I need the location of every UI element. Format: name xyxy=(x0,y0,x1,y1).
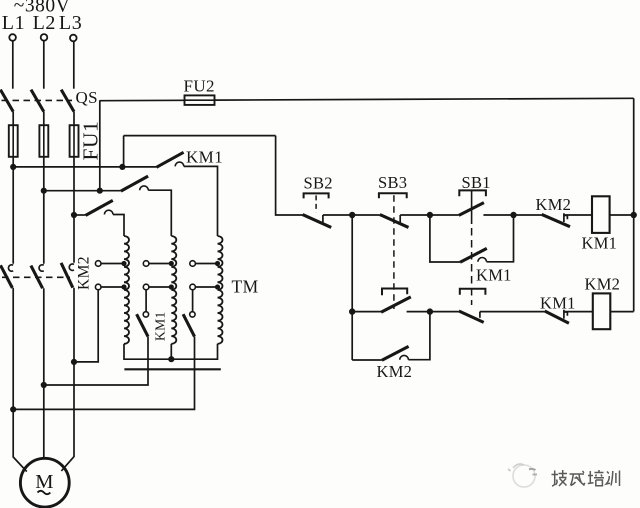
contactor KM1 main contact 3 blade xyxy=(86,200,113,215)
contactor KM1 main contact 3 arc xyxy=(104,210,113,214)
coil KM1 label xyxy=(582,233,618,252)
terminal winding 1 lower tap circle xyxy=(95,284,101,290)
terminal L2 xyxy=(41,34,48,41)
contactor KM1 main contact 2 blade xyxy=(121,176,148,191)
pushbutton SB1 lower tick xyxy=(479,312,481,318)
transformer TM winding 2 xyxy=(171,236,176,344)
wire control left rail xyxy=(276,136,303,215)
fuse FU1 label xyxy=(79,121,103,161)
wire QS pole1 to FU1 xyxy=(12,112,14,126)
wire winding 1 lower tap xyxy=(101,286,124,288)
wire node B to SB1 xyxy=(430,214,459,216)
pushbutton SB1 plunger dashed xyxy=(471,228,473,305)
motor tilde xyxy=(38,491,51,494)
node junction L2 bus xyxy=(41,188,47,194)
contactor KM1 main contact 2 arc xyxy=(140,186,149,190)
node junction contact B L1 xyxy=(10,406,16,412)
wire row2 node to SB1 lower xyxy=(430,311,459,313)
node L1 label xyxy=(2,12,25,34)
wire bus phase L3 horizontal xyxy=(74,214,86,216)
coil KM2 xyxy=(593,293,611,329)
node ~380V supply label xyxy=(14,0,70,17)
svg-text:SB2: SB2 xyxy=(304,174,333,193)
motor M letter xyxy=(35,471,53,493)
contactor KM1 NC row2 label xyxy=(540,294,576,313)
pushbutton SB1 label xyxy=(462,173,491,192)
wire L2 drop to QS xyxy=(43,41,45,89)
terminal winding 2 lower tap circle xyxy=(143,284,149,290)
wire node A to SB3 xyxy=(352,214,380,216)
wire L3 column KM2 to motor xyxy=(61,288,74,471)
node winding 3 lower tap junction xyxy=(215,284,220,289)
node winding 2 upper tap junction xyxy=(169,261,174,266)
wire KM1 contact 2 to winding 2 xyxy=(148,190,171,236)
node A junction xyxy=(349,212,355,218)
svg-text:KM1: KM1 xyxy=(153,311,168,341)
transformer TM winding 3 xyxy=(218,236,223,344)
wire row2 left rail from node A xyxy=(351,215,353,360)
switch QS pole 3 blade xyxy=(61,90,74,112)
contactor KM1 self-hold arc xyxy=(478,258,487,262)
svg-text:QS: QS xyxy=(76,88,99,107)
wire control line 2 xyxy=(124,135,276,137)
contactor KM2 rotated label xyxy=(76,256,93,290)
svg-text:L1: L1 xyxy=(2,12,25,34)
wire L1 column FU1 to KM2 xyxy=(12,157,14,264)
wire control right rail xyxy=(633,98,635,311)
fuse FU1 pole 1 xyxy=(9,125,18,157)
contactor KM1 label xyxy=(186,148,223,167)
node L3 label xyxy=(59,12,82,34)
contactor KM1 NC row2 blade xyxy=(545,311,569,323)
watermark logo xyxy=(508,464,537,487)
contactor KM2 main contact 1 arc xyxy=(8,265,13,271)
wire winding 3 upper tap xyxy=(195,263,217,265)
contactor KM1 main contact 1 arc xyxy=(175,162,184,166)
pushbutton SB2 label xyxy=(304,174,333,193)
svg-text:KM2: KM2 xyxy=(76,256,93,290)
wire SB3 to node B xyxy=(400,214,430,216)
fuse FU1 pole 2 xyxy=(39,125,48,157)
svg-text:KM1: KM1 xyxy=(582,233,618,252)
terminal L3 xyxy=(70,35,77,42)
svg-text:L3: L3 xyxy=(59,12,82,34)
contactor KM2 NC interlock tick xyxy=(564,213,568,222)
terminal winding 2 upper tap circle xyxy=(143,261,149,267)
coil KM1 xyxy=(592,196,610,233)
wire KM2 aux branch right rise xyxy=(408,312,430,360)
wire node C to KM2 interlock xyxy=(514,214,542,216)
contactor KM1 main contact 1 blade xyxy=(156,152,183,167)
contactor KM2 main contact 3 blade xyxy=(61,263,73,288)
node junction row2 left xyxy=(349,308,355,314)
contactor KM2 aux blade xyxy=(382,346,409,360)
node junction tap L3 xyxy=(71,359,77,365)
motor M circle xyxy=(20,458,69,507)
pushbutton SB1 cap xyxy=(459,190,486,196)
wire KM1 contact 3 to winding 1 xyxy=(113,215,124,237)
watermark text 技成培训 xyxy=(552,470,620,486)
pushbutton SB3 lower cap xyxy=(382,289,407,296)
svg-text:L2: L2 xyxy=(33,12,56,34)
wire KM1 contact 1 to winding 3 xyxy=(184,166,218,236)
node winding 1 upper tap junction xyxy=(121,261,126,266)
wire L1 column KM2 to motor xyxy=(13,288,27,472)
contactor KM1 NC row2 tick xyxy=(564,310,568,319)
node junction contact A L2 xyxy=(41,382,47,388)
terminal winding 3 upper tap circle xyxy=(190,261,196,267)
svg-text:SB3: SB3 xyxy=(378,173,407,192)
fuse FU2 label xyxy=(184,77,215,96)
wire QS pole2 to FU1 xyxy=(43,112,45,126)
node junction star bus winding 2 xyxy=(168,356,174,362)
node C junction xyxy=(510,212,516,218)
pushbutton SB3 fixed tick xyxy=(399,215,401,222)
pushbutton SB2 cap xyxy=(304,193,329,198)
contactor KM2 aux arc xyxy=(400,355,409,359)
svg-text:KM2: KM2 xyxy=(585,275,621,294)
pushbutton SB3 label xyxy=(378,173,407,192)
wire SB2 to node A xyxy=(323,214,352,216)
pushbutton SB1 blade xyxy=(459,203,484,216)
contactor KM1 star contact A blade xyxy=(137,314,148,336)
node junction row2 mid xyxy=(427,308,433,314)
contactor KM2 aux label xyxy=(377,362,413,381)
contactor KM2 main contact 3 arc xyxy=(69,264,74,270)
contactor KM2 main contact 2 blade xyxy=(31,266,43,289)
wire L2 column FU1 to KM2 xyxy=(43,157,45,264)
switch QS pole 2 blade xyxy=(31,90,44,112)
contactor KM1 star rotated label xyxy=(153,311,168,341)
contactor KM1 star contact A fixed circle xyxy=(143,312,148,317)
pushbutton SB2 fixed tick xyxy=(322,215,324,222)
wire contact B to L1 column xyxy=(13,337,194,410)
wire bus phase L2 horizontal xyxy=(44,190,121,192)
wire KM2 interlock to coil KM1 xyxy=(564,214,592,216)
wire FU2 feed drop xyxy=(99,100,101,191)
pushbutton SB2 blade xyxy=(303,215,332,228)
svg-text:SB1: SB1 xyxy=(462,173,491,192)
wire self-hold branch right rise xyxy=(487,215,514,262)
svg-text:KM1: KM1 xyxy=(186,148,223,167)
transformer TM winding 1 xyxy=(124,236,129,344)
pushbutton SB1 lower cap xyxy=(460,289,486,295)
contactor KM2 main contact 1 blade xyxy=(1,265,13,288)
svg-text:FU2: FU2 xyxy=(184,77,215,96)
pushbutton SB2 plunger dashed xyxy=(315,195,317,212)
node B junction xyxy=(427,212,433,218)
wire winding bottoms star bus xyxy=(124,344,218,359)
wire winding2 tap to contact A xyxy=(145,290,147,312)
switch QS label xyxy=(76,88,99,107)
svg-text:KM2: KM2 xyxy=(377,362,413,381)
wire winding 2 bottom xyxy=(170,344,172,359)
node winding 2 lower tap junction xyxy=(169,284,174,289)
contactor KM1 self-hold label xyxy=(476,266,512,285)
wire winding3 tap to contact B xyxy=(192,290,194,312)
wire QS pole3 to FU1 xyxy=(73,112,75,126)
wire bus phase L1 horizontal xyxy=(13,166,156,168)
node winding 1 lower tap junction xyxy=(121,284,126,289)
pushbutton SB3 plunger dashed xyxy=(393,195,395,309)
switch QS pole 1 blade xyxy=(0,90,13,112)
pushbutton SB1 lower blade xyxy=(459,311,484,322)
node junction FU2 drop xyxy=(97,188,103,194)
terminal L1 xyxy=(9,34,16,41)
wire control line 2 tap drop xyxy=(123,136,125,167)
contactor KM2 linkage dashed xyxy=(2,276,70,278)
wire self-hold branch left drop xyxy=(430,215,460,262)
wire winding1 tap to L3 column xyxy=(74,290,98,362)
terminal winding 1 upper tap circle xyxy=(95,261,101,267)
node junction L3 bus xyxy=(71,212,77,218)
contactor KM1 star contact B blade xyxy=(183,314,194,336)
pushbutton SB3 blade xyxy=(380,215,409,228)
wire transformer core bar xyxy=(124,368,220,370)
wire contact A to L2 column xyxy=(44,337,148,385)
wire winding 2 upper tap xyxy=(149,263,172,265)
svg-text:M: M xyxy=(35,471,53,493)
node winding 3 upper tap junction xyxy=(215,261,220,266)
node junction L1 bus xyxy=(10,164,16,170)
fuse FU1 pole 3 xyxy=(70,125,79,157)
wire L2 column KM2 to motor xyxy=(43,288,45,458)
wire SB3 lower to row2 node xyxy=(407,311,430,313)
wire winding 3 lower tap xyxy=(195,286,217,288)
contactor KM1 self-hold blade xyxy=(460,248,487,262)
svg-text:KM1: KM1 xyxy=(476,266,512,285)
switch QS linkage dashed xyxy=(2,99,73,101)
pushbutton SB1 plunger solid xyxy=(471,191,473,224)
wire coil KM1 to right rail xyxy=(610,214,634,216)
terminal winding 3 lower tap circle xyxy=(190,284,196,290)
wire SB1 lower to KM1 contact xyxy=(480,311,545,313)
wire FU2 line right xyxy=(215,98,634,100)
transformer TM label xyxy=(232,276,259,296)
node junction control tap xyxy=(119,164,125,170)
wire row2 to SB3 lower contact xyxy=(352,311,381,313)
svg-text:FU1: FU1 xyxy=(79,121,103,161)
wire KM1 row2 to coil KM2 xyxy=(564,311,593,313)
pushbutton SB3 lower blade xyxy=(381,297,411,312)
contactor KM2 NC interlock blade xyxy=(542,214,570,226)
contactor KM2 NC interlock label xyxy=(536,195,572,214)
pushbutton SB3 cap xyxy=(379,193,407,198)
wire L3 column FU1 to KM2 xyxy=(73,157,75,263)
wire SB1 to node C xyxy=(483,214,513,216)
node junction right rail xyxy=(631,212,637,218)
wire winding 2 lower tap xyxy=(149,286,172,288)
fuse FU2 xyxy=(185,95,215,105)
svg-text:KM1: KM1 xyxy=(540,294,576,313)
contactor KM2 main contact 2 arc xyxy=(39,265,44,271)
wire KM2 aux branch left xyxy=(352,359,382,361)
contactor KM1 star contact B fixed circle xyxy=(190,312,195,317)
coil KM2 label xyxy=(585,275,621,294)
wire L1 drop to QS xyxy=(12,41,14,89)
svg-text:KM2: KM2 xyxy=(536,195,572,214)
node L2 label xyxy=(33,12,56,34)
wire coil KM2 to right rail xyxy=(610,311,633,313)
wire winding 1 upper tap xyxy=(101,263,124,265)
svg-text:TM: TM xyxy=(232,276,259,296)
wire L3 drop to QS xyxy=(73,41,75,88)
wire FU2 line left xyxy=(100,99,185,101)
